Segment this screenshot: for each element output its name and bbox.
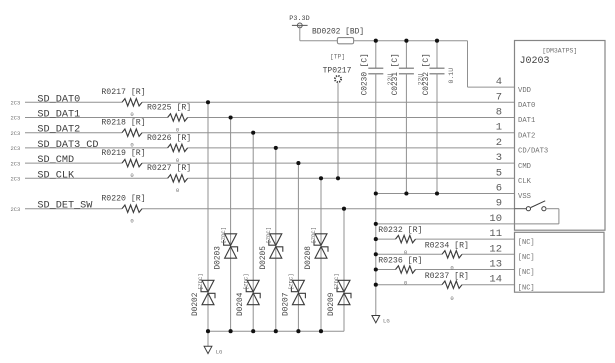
svg-text:2: 2 — [496, 137, 502, 149]
svg-text:DAT0: DAT0 — [518, 102, 535, 110]
svg-text:2C3: 2C3 — [11, 146, 21, 152]
svg-text:[NC]: [NC] — [518, 254, 535, 262]
svg-text:R0225 [R]: R0225 [R] — [147, 102, 191, 112]
svg-text:D0204: D0204 — [237, 292, 245, 316]
svg-text:BD0202 [BD]: BD0202 [BD] — [312, 28, 364, 37]
svg-text:C0231 [C]: C0231 [C] — [392, 53, 400, 95]
svg-text:9: 9 — [496, 198, 502, 210]
svg-text:[ZDC]: [ZDC] — [242, 273, 249, 290]
svg-text:VDD: VDD — [518, 87, 531, 95]
svg-text:[NC]: [NC] — [518, 269, 535, 277]
svg-text:J0203: J0203 — [520, 56, 550, 67]
svg-text:D0205: D0205 — [260, 246, 268, 270]
svg-text:7: 7 — [496, 91, 502, 103]
svg-text:CLK: CLK — [518, 178, 532, 186]
svg-text:SD_CMD: SD_CMD — [37, 155, 74, 166]
svg-text:SD_DAT1: SD_DAT1 — [37, 110, 80, 121]
svg-text:CMD: CMD — [518, 163, 531, 171]
svg-text:[ZDC]: [ZDC] — [197, 273, 204, 290]
svg-text:2C3: 2C3 — [11, 177, 21, 183]
svg-text:R0232 [R]: R0232 [R] — [378, 225, 422, 235]
svg-text:DAT2: DAT2 — [518, 132, 535, 140]
svg-text:LG: LG — [383, 317, 390, 324]
svg-text:R0236 [R]: R0236 [R] — [378, 256, 422, 266]
svg-text:2C3: 2C3 — [11, 131, 21, 137]
svg-text:R0237 [R]: R0237 [R] — [425, 271, 469, 281]
svg-text:D0202: D0202 — [192, 292, 200, 316]
svg-text:C0232 [C]: C0232 [C] — [423, 53, 431, 95]
svg-text:D0209: D0209 — [328, 292, 336, 316]
svg-text:[NC]: [NC] — [518, 284, 535, 292]
svg-text:TP0217: TP0217 — [323, 66, 352, 75]
svg-text:13: 13 — [489, 259, 502, 271]
svg-text:C0230 [C]: C0230 [C] — [362, 53, 370, 95]
svg-text:[ZDC]: [ZDC] — [220, 227, 227, 244]
svg-text:2C3: 2C3 — [11, 207, 21, 213]
svg-text:SD_DAT0: SD_DAT0 — [37, 94, 80, 105]
svg-text:3: 3 — [496, 152, 502, 164]
svg-text:D0203: D0203 — [215, 246, 223, 270]
svg-text:4: 4 — [496, 76, 502, 88]
svg-text:0.1U: 0.1U — [448, 68, 455, 84]
svg-text:2C3: 2C3 — [11, 101, 21, 107]
svg-text:[DM3ATPS]: [DM3ATPS] — [542, 48, 577, 55]
svg-text:D0207: D0207 — [282, 292, 290, 316]
svg-text:2C3: 2C3 — [11, 161, 21, 167]
svg-text:R0226 [R]: R0226 [R] — [147, 133, 191, 143]
svg-text:R0227 [R]: R0227 [R] — [147, 163, 191, 173]
svg-text:12: 12 — [489, 243, 502, 255]
svg-text:SD_DET_SW: SD_DET_SW — [37, 201, 93, 212]
svg-text:R0234 [R]: R0234 [R] — [425, 240, 469, 250]
svg-text:SD_DAT3_CD: SD_DAT3_CD — [37, 140, 98, 151]
svg-text:[ZDC]: [ZDC] — [288, 273, 295, 290]
svg-text:5: 5 — [496, 167, 502, 179]
svg-text:11: 11 — [489, 228, 502, 240]
svg-text:R0220 [R]: R0220 [R] — [101, 194, 145, 204]
svg-text:SD_DAT2: SD_DAT2 — [37, 125, 80, 136]
svg-text:14: 14 — [489, 274, 502, 286]
svg-text:[NC]: [NC] — [518, 239, 535, 247]
svg-text:LG: LG — [216, 349, 223, 356]
svg-text:VSS: VSS — [518, 193, 531, 201]
svg-text:[ZDC]: [ZDC] — [310, 227, 317, 244]
svg-text:[ZDC]: [ZDC] — [333, 273, 340, 290]
svg-text:R0218 [R]: R0218 [R] — [101, 118, 145, 128]
svg-text:10: 10 — [489, 213, 502, 225]
svg-text:2C3: 2C3 — [11, 116, 21, 122]
svg-text:CD/DAT3: CD/DAT3 — [518, 148, 548, 156]
svg-text:6: 6 — [496, 183, 502, 195]
svg-text:[TP]: [TP] — [330, 54, 345, 61]
svg-text:R0217 [R]: R0217 [R] — [101, 87, 145, 97]
svg-text:SD_CLK: SD_CLK — [37, 170, 75, 181]
svg-text:8: 8 — [496, 107, 502, 119]
svg-text:DAT1: DAT1 — [518, 117, 535, 125]
svg-text:1: 1 — [496, 122, 502, 134]
svg-text:D0208: D0208 — [305, 246, 313, 270]
svg-text:R0219 [R]: R0219 [R] — [101, 148, 145, 158]
svg-text:P3.3D: P3.3D — [289, 15, 309, 23]
svg-text:[ZDC]: [ZDC] — [265, 227, 272, 244]
